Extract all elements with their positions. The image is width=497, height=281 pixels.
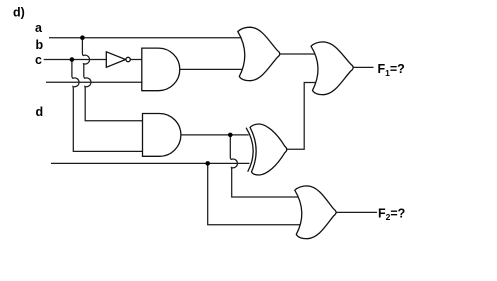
wire third input line to AND1: [46, 81, 143, 83]
wire NOT gate output to AND1: [130, 59, 143, 61]
wire branch from AND2 output down to OR3 top input (with hop): [230, 135, 299, 197]
junction node on input a: [80, 35, 85, 40]
svg-text:b: b: [36, 38, 44, 52]
wire AND2 output to XOR: [181, 134, 249, 136]
wire input d: [51, 162, 250, 164]
XOR gate U6 input arc: [246, 128, 253, 172]
wire branch from a down to AND2 top input (with hops): [82, 38, 144, 121]
svg-text:c: c: [35, 53, 42, 67]
svg-text:d: d: [36, 105, 44, 119]
wire input a: [49, 37, 243, 39]
wire branch from d down to OR3 bottom input: [208, 163, 300, 224]
svg-text:F2=?: F2=?: [378, 206, 405, 222]
junction node on input d: [205, 161, 210, 166]
junction node on AND2 output: [228, 133, 233, 138]
wire OR3 output to F2 label: [336, 211, 377, 213]
wire input c to NOT gate: [44, 59, 107, 61]
XOR gate U6 body: [250, 124, 287, 175]
wire AND1 output to OR1: [180, 68, 244, 70]
wire branch from c down to AND2 bottom input (with hop): [72, 60, 144, 152]
svg-text:F1=?: F1=?: [378, 62, 405, 78]
junction node on input c: [70, 57, 75, 62]
NOT gate inverter: [106, 52, 130, 68]
svg-text:d): d): [13, 6, 25, 20]
OR gate U7 output F2: [295, 186, 336, 239]
wire XOR output up to OR2 bottom input: [287, 83, 315, 150]
AND gate U2 top: [142, 48, 180, 91]
svg-text:a: a: [35, 21, 43, 35]
wire OR1 output to OR2: [280, 53, 316, 55]
AND gate U3 bottom: [143, 114, 181, 157]
OR gate U5 output F1: [311, 42, 353, 95]
wire OR2 output to F1 label: [353, 66, 373, 68]
OR gate U4 top: [238, 27, 280, 80]
